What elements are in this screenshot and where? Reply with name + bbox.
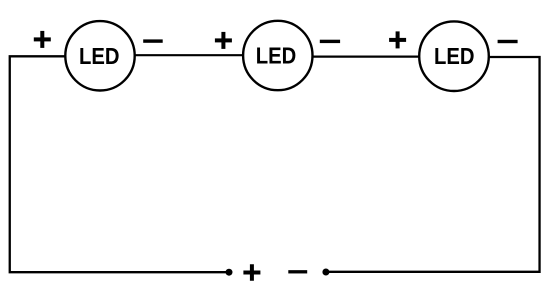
svg-text:LED: LED xyxy=(256,43,297,69)
LED lamp D1 xyxy=(65,21,134,90)
wire: left loop (top-left segment, left vertical, bottom-left to battery + terminal) xyxy=(10,56,229,272)
svg-text:LED: LED xyxy=(79,43,120,69)
polarity label + (D2 anode) xyxy=(215,32,232,49)
junction dot: battery + lead xyxy=(226,269,233,276)
junction dot: battery - lead xyxy=(322,269,329,276)
wire: right loop (D3 cathode, right vertical, bottom-right to battery - terminal) xyxy=(326,57,540,272)
polarity label - (D3 cathode) xyxy=(498,40,518,43)
battery - terminal label xyxy=(288,270,307,273)
polarity label + (D1 anode) xyxy=(34,31,51,48)
battery + terminal label xyxy=(243,264,260,281)
polarity label - (D1 cathode) xyxy=(143,39,163,42)
polarity label + (D3 anode) xyxy=(389,31,406,48)
wire: D1 cathode to D2 anode xyxy=(134,54,244,56)
LED lamp D2 xyxy=(243,21,312,90)
LED lamp D3 xyxy=(419,21,489,91)
polarity label - (D2 cathode) xyxy=(320,40,340,43)
wire: D2 cathode to D3 anode xyxy=(312,55,421,57)
svg-text:LED: LED xyxy=(434,43,475,69)
